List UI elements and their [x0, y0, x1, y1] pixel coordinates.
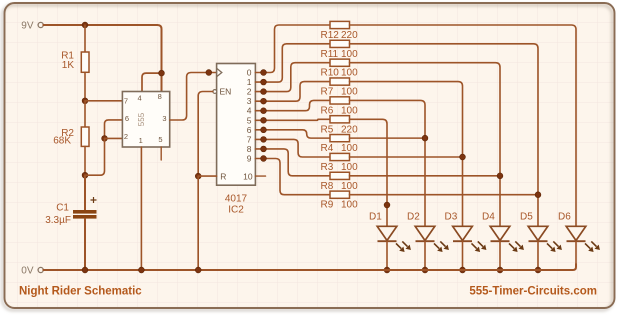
- svg-text:100: 100: [341, 162, 358, 173]
- junction D5 / 0V rail: [535, 267, 541, 273]
- LED D1 cathode bar: [378, 240, 397, 242]
- junction output 1: [261, 79, 267, 85]
- svg-text:1K: 1K: [62, 60, 75, 71]
- wire output 1 to R11: [255, 44, 330, 82]
- svg-text:68K: 68K: [53, 136, 71, 147]
- junction output 7: [261, 136, 267, 142]
- junction output 4: [261, 108, 267, 114]
- junction R1/R2/pin7: [82, 98, 88, 104]
- wire D1 cathode to 0V: [386, 241, 388, 270]
- svg-text:D6: D6: [558, 212, 571, 223]
- svg-text:5: 5: [158, 135, 162, 144]
- wire R10 to D4 column: [350, 63, 501, 227]
- svg-text:100: 100: [341, 68, 358, 79]
- wire pin 1 to 0V: [140, 147, 142, 270]
- svg-text:9: 9: [247, 154, 252, 164]
- resistor R10: [330, 59, 350, 66]
- junction R8 / D4 column: [497, 173, 503, 179]
- svg-text:4: 4: [247, 106, 252, 116]
- svg-text:D5: D5: [520, 212, 533, 223]
- svg-text:9V: 9V: [21, 21, 34, 32]
- svg-text:1: 1: [247, 77, 252, 87]
- wire output 2 to R10: [255, 63, 330, 92]
- wire C1 to 0V: [84, 219, 86, 270]
- junction reset / 0V: [195, 267, 201, 273]
- svg-text:6: 6: [247, 125, 252, 135]
- junction D3 / 0V rail: [460, 267, 466, 273]
- op... IC U1 555 body: [122, 92, 169, 148]
- junction D2 / 0V rail: [422, 267, 428, 273]
- resistor R8: [330, 172, 350, 179]
- terminal 9V: [38, 22, 43, 27]
- svg-text:555-Timer-Circuits.com: 555-Timer-Circuits.com: [469, 286, 597, 298]
- LED D4 emission arrows: [509, 243, 514, 248]
- LED D5 triangle: [528, 226, 548, 240]
- wire pin 3 to 4017 clock: [170, 73, 217, 121]
- resistor R11: [330, 40, 350, 47]
- wire 9V rail to 555 supply: [43, 25, 161, 92]
- LED D5 emission arrows: [547, 243, 552, 248]
- wire D4 cathode to 0V: [499, 241, 501, 270]
- wire EN/R down to 0V: [197, 176, 199, 270]
- svg-text:R9: R9: [321, 200, 334, 211]
- svg-text:R3: R3: [321, 162, 334, 173]
- terminal 0V: [38, 267, 43, 272]
- wire output 0 to R12: [255, 25, 330, 73]
- wire output 9 to R9: [255, 159, 330, 195]
- LED D5 cathode bar: [529, 240, 548, 242]
- junction output 8: [261, 146, 267, 152]
- resistor R12: [330, 21, 350, 28]
- capacitor C1 bottom plate: [73, 215, 97, 219]
- svg-text:R10: R10: [321, 68, 340, 79]
- resistor R5: [330, 116, 350, 123]
- wire pin 7: [85, 100, 122, 102]
- svg-text:3: 3: [247, 96, 252, 106]
- LED D3 cathode bar: [453, 240, 472, 242]
- wire R1 top: [84, 25, 86, 52]
- junction output 9: [261, 156, 267, 162]
- svg-text:7: 7: [247, 134, 252, 144]
- wire R2 bottom to C1 node: [84, 146, 86, 175]
- wire EN to reset rail: [198, 92, 213, 177]
- svg-text:6: 6: [125, 114, 129, 123]
- wire D2 cathode to 0V: [424, 241, 426, 270]
- svg-text:R: R: [220, 171, 226, 181]
- wire R6 to D2 column: [350, 100, 426, 226]
- wire R7 to D3 column: [350, 82, 463, 227]
- junction C1 / 0V: [82, 267, 88, 273]
- wire pin 6 to junction: [105, 120, 123, 138]
- wire output 4 to R6: [255, 100, 330, 110]
- capacitor C1 top plate: [73, 210, 97, 214]
- svg-text:R5: R5: [321, 124, 334, 135]
- junction pins 2-6: [102, 136, 108, 142]
- junction D4 / 0V rail: [497, 267, 503, 273]
- svg-text:3: 3: [162, 114, 166, 123]
- wire output 5 to R5: [255, 119, 330, 120]
- LED D6 triangle: [566, 226, 586, 240]
- svg-text:IC2: IC2: [228, 205, 244, 216]
- wire D5 cathode to 0V: [537, 241, 539, 270]
- svg-text:0V: 0V: [21, 266, 34, 277]
- resistor R2: [81, 127, 89, 146]
- junction clock wire: [206, 70, 212, 76]
- LED D1 triangle: [377, 226, 397, 240]
- wire R9 join D5 column: [350, 194, 539, 196]
- junction D1 column: [384, 202, 390, 208]
- LED D3 emission arrows: [472, 243, 477, 248]
- wire pins2-6 down to C1 node: [85, 138, 105, 175]
- svg-text:C1: C1: [56, 203, 69, 214]
- wire node to R2: [84, 101, 86, 127]
- wire R4 join D2 column: [350, 137, 426, 139]
- junction EN/R: [195, 173, 201, 179]
- junction R9 / D5 column: [535, 192, 541, 198]
- LED D6 emission arrows: [585, 243, 590, 248]
- svg-text:1: 1: [139, 136, 143, 145]
- svg-text:100: 100: [341, 181, 358, 192]
- resistor R3: [330, 153, 350, 160]
- svg-text:R6: R6: [321, 105, 334, 116]
- LED D3 triangle: [453, 226, 473, 240]
- junction D1 / 0V rail: [384, 267, 390, 273]
- svg-text:7: 7: [124, 96, 128, 105]
- svg-text:D3: D3: [445, 212, 458, 223]
- wire R12 to D6 column: [350, 25, 577, 226]
- wire pin 2: [105, 137, 123, 139]
- svg-text:8: 8: [247, 144, 252, 154]
- junction output 2: [261, 89, 267, 95]
- wire R5 to D1 column: [350, 119, 388, 226]
- svg-text:8: 8: [158, 92, 162, 101]
- svg-text:555: 555: [137, 112, 146, 126]
- svg-text:4: 4: [138, 93, 142, 102]
- LED D2 cathode bar: [416, 240, 435, 242]
- junction R2/C1/threshold: [82, 172, 88, 178]
- svg-text:D1: D1: [369, 212, 382, 223]
- svg-text:4017: 4017: [225, 194, 248, 205]
- wire R8 join D4 column: [350, 175, 501, 177]
- svg-text:2: 2: [247, 87, 252, 97]
- resistor R1: [81, 52, 89, 72]
- svg-text:220: 220: [341, 124, 358, 135]
- EN inverter bubble: [213, 90, 217, 94]
- wire R3 join D3 column: [350, 156, 463, 158]
- wire node to C1: [84, 175, 86, 210]
- wire pin 10 stub: [255, 175, 265, 177]
- clock input triangle: [217, 68, 222, 76]
- LED D2 triangle: [415, 226, 435, 240]
- junction pins 4-8 supply: [159, 70, 165, 76]
- svg-text:R11: R11: [321, 49, 339, 60]
- wire pin4 branch: [142, 73, 162, 91]
- LED D2 emission arrows: [434, 243, 439, 248]
- svg-text:100: 100: [341, 143, 358, 154]
- capacitor C1 plus sign: [91, 197, 97, 203]
- svg-text:R7: R7: [321, 87, 334, 98]
- LED D4 triangle: [490, 226, 510, 240]
- svg-text:R8: R8: [321, 181, 334, 192]
- junction output 5: [261, 117, 267, 123]
- wire R11 to D5 column: [350, 44, 539, 226]
- junction output 0: [261, 70, 267, 76]
- junction R3 / D3 column: [460, 154, 466, 160]
- resistor R9: [330, 191, 350, 198]
- svg-text:10: 10: [243, 171, 253, 181]
- svg-text:100: 100: [341, 49, 358, 60]
- svg-text:3.3µF: 3.3µF: [45, 215, 71, 226]
- svg-text:100: 100: [341, 200, 358, 211]
- wire D6 cathode: [575, 241, 577, 266]
- junction pin1 / 0V: [139, 267, 145, 273]
- wire pin 5 stub: [160, 147, 162, 160]
- svg-text:0: 0: [247, 68, 252, 78]
- wire D3 cathode to 0V: [462, 241, 464, 270]
- svg-text:100: 100: [341, 87, 358, 98]
- wire output 7 to R3: [255, 139, 330, 157]
- svg-text:220: 220: [341, 30, 358, 41]
- wire output 6 to R4: [255, 130, 330, 138]
- LED D1 emission arrows: [396, 243, 401, 248]
- svg-text:R4: R4: [321, 143, 334, 154]
- junction R4 / D2 column: [422, 135, 428, 141]
- resistor R4: [330, 135, 350, 142]
- resistor R6: [330, 97, 350, 104]
- svg-text:2: 2: [124, 132, 128, 141]
- counter IC2 4017 body: [217, 64, 256, 186]
- LED D6 cathode bar: [567, 240, 586, 242]
- LED D4 cathode bar: [491, 240, 510, 242]
- wire output 8 to R8: [255, 149, 330, 176]
- wire R1 bottom to node: [84, 72, 86, 101]
- svg-text:5: 5: [247, 115, 252, 125]
- svg-text:EN: EN: [220, 87, 232, 97]
- resistor R7: [330, 78, 350, 85]
- svg-text:R12: R12: [321, 30, 340, 41]
- svg-text:D2: D2: [407, 212, 420, 223]
- junction output 6: [261, 127, 267, 133]
- junction output 3: [261, 98, 267, 104]
- junction 9V rail / R1: [82, 22, 88, 28]
- wire output 3 to R7: [255, 82, 330, 102]
- svg-text:Night Rider Schematic: Night Rider Schematic: [19, 286, 142, 298]
- svg-text:100: 100: [341, 105, 358, 116]
- wire 0V rail: [43, 264, 576, 270]
- wire R pin: [198, 175, 216, 177]
- svg-text:D4: D4: [482, 212, 495, 223]
